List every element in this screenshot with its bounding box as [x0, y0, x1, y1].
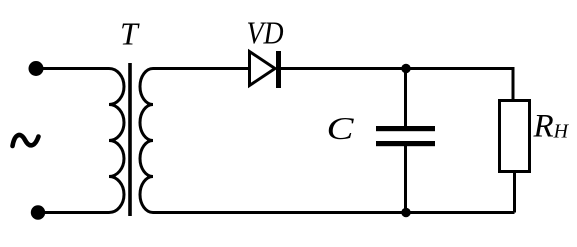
diode VD: anode triangle — [250, 52, 276, 86]
capacitor C: bottom plate — [376, 141, 435, 146]
svg-text:VD: VD — [247, 15, 284, 51]
junction node bottom — [401, 208, 410, 217]
ac tilde symbol — [13, 135, 39, 146]
resistor RH: body — [500, 101, 530, 172]
diode VD: cathode bar — [276, 51, 281, 88]
terminal dot bottom — [31, 205, 45, 219]
capacitor C: bottom lead — [404, 146, 407, 213]
capacitor C: top lead — [404, 69, 407, 127]
svg-text:T: T — [120, 16, 140, 52]
wire top (diode to right corner) — [281, 69, 513, 101]
transformer T: primary winding — [109, 69, 124, 213]
svg-text:C: C — [327, 110, 355, 146]
svg-text:RH: RH — [533, 109, 570, 145]
terminal dot top — [29, 61, 44, 76]
wire bottom (secondary to resistor) — [153, 211, 515, 214]
wire bottom-left (source to primary) — [38, 211, 109, 214]
junction node top — [401, 64, 410, 73]
transformer T: secondary winding — [140, 69, 153, 213]
resistor RH: bottom lead — [513, 172, 516, 213]
transformer T: core — [128, 63, 132, 216]
wire top-left (source to primary) — [36, 67, 109, 70]
wire top (secondary to diode) — [153, 67, 249, 70]
capacitor C: top plate — [376, 126, 435, 131]
